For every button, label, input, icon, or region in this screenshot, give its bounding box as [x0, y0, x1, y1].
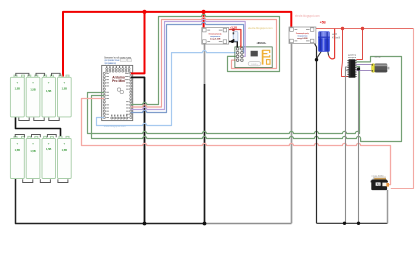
svg-text:мотор: мотор [375, 57, 382, 59]
svg-text:вход 6-23В: вход 6-23В [297, 38, 308, 40]
bottom header pins [111, 117, 128, 119]
svg-text:+: + [16, 142, 18, 146]
wire: lavender MOSI Arduino to nRF24 [134, 19, 246, 109]
svg-text:наб: наб [332, 34, 338, 36]
capacitor C1 (3.3V filter) [233, 32, 238, 42]
wire: black module1 OUT- to nRF24 GND [227, 42, 238, 49]
DC-DC module M1 (step-down converter) [202, 28, 229, 44]
junction dot C1 top [232, 28, 235, 31]
svg-text:1,5В: 1,5В [62, 149, 67, 152]
svg-text:nRF24L01+: nRF24L01+ [257, 42, 267, 45]
battery pack row 2 [10, 135, 71, 183]
left pin labels [106, 73, 109, 118]
right pin labels [125, 73, 129, 118]
svg-text:1,5В: 1,5В [30, 150, 35, 153]
svg-text:+: + [32, 142, 34, 146]
wire: green B Arduino A-pin to motor driver IN (big loop right) [92, 57, 402, 142]
wire: red +5V to motor driver Vcc pin [356, 29, 362, 60]
wire: motor driver GND left pins to bus [346, 67, 349, 223]
junction dot C1 bottom [231, 40, 234, 43]
svg-text:программатор: программатор [104, 63, 116, 65]
svg-text:1,5В: 1,5В [15, 88, 20, 91]
junction dot red rail 2 [202, 10, 206, 14]
svg-text:+: + [32, 80, 34, 84]
battery B3 [42, 75, 56, 117]
wire: red drop rail to module1 IN+ [203, 12, 205, 29]
wire: red drop rail to Arduino RAW pin [134, 12, 145, 74]
battery B6 [26, 136, 40, 178]
battery B1 [10, 75, 24, 117]
wire: series brackets row2 top [15, 135, 56, 138]
wire: +5V rail from module2 OUT+ to servo [315, 28, 413, 30]
wire: right ground bus [317, 222, 388, 224]
svg-text:1,5В: 1,5В [30, 89, 35, 92]
wire: series brackets row1 top [16, 73, 60, 76]
wire stubs over nRF24 board [235, 45, 245, 60]
wire: green SCK Arduino to nRF24 (loop around board) [134, 14, 280, 104]
wire: red capacitor plus to +5V rail [329, 29, 335, 59]
wire: motor driver GND right pin to bus [356, 69, 358, 223]
wire: purple motor leads [356, 65, 372, 71]
junction dot C2 minus [315, 58, 318, 61]
motor driver IC U3 (L293D) [347, 59, 356, 77]
svg-text:electe.blogspot.com: electe.blogspot.com [248, 26, 273, 30]
wire: light blue CE Arduino to nRF24 (under-board loop) [97, 51, 237, 126]
wire: servo ground gray [387, 190, 389, 223]
svg-text:вход 6-23В: вход 6-23В [210, 39, 221, 41]
capacitor C2 legs [317, 51, 329, 60]
wire: battery series link row1 to row2 [16, 115, 61, 140]
left header pins [103, 72, 105, 118]
svg-text:Понижающий преобр.: Понижающий преобр. [209, 32, 222, 35]
junction dot bus 2 [203, 222, 207, 226]
battery pack row 1 [10, 73, 71, 120]
svg-text:1,5В: 1,5В [46, 90, 51, 93]
svg-text:1,5В: 1,5В [46, 148, 51, 151]
nRF24 header pins overlay [236, 48, 243, 62]
wire: battery minus to ground bus [16, 178, 206, 224]
junction dot +5V rail 1 [341, 27, 344, 30]
junction dot IC right GND [357, 67, 360, 70]
svg-text:моторов: моторов [348, 57, 357, 59]
Arduino Pro Mini U1 [102, 65, 133, 120]
RF chip [251, 51, 258, 57]
top header pins [106, 68, 130, 72]
svg-text:+: + [48, 80, 50, 84]
note text above Arduino [104, 56, 131, 65]
svg-text:+: + [63, 142, 65, 146]
battery B8 [58, 136, 72, 178]
wire: module2 OUT- gray drop to bus [291, 43, 293, 223]
junction dot +5V rail 2 [361, 27, 364, 30]
capacitor C2 electrolytic blue [318, 31, 330, 52]
wire: red module1 OUT+ to nRF24 VCC [227, 30, 241, 49]
wire stubs over Arduino board edges [102, 73, 135, 117]
battery B2 [26, 75, 40, 117]
svg-text:+: + [48, 142, 50, 146]
svg-text:для прошивки только: для прошивки только [104, 60, 119, 62]
servo M4 [371, 175, 389, 190]
label above IC [348, 54, 357, 60]
junction dot right bus 1 [343, 222, 346, 225]
battery B4 [58, 75, 72, 117]
junction dot red rail 1 [142, 10, 146, 14]
battery B5 [10, 136, 24, 178]
wire: black Arduino GND down [134, 77, 145, 223]
wire: blue CSN Arduino to nRF24 [134, 22, 244, 112]
wire: red +5V to motor driver motor supply pin [342, 29, 349, 77]
svg-text:1,5В: 1,5В [15, 149, 20, 152]
header pins 2x4 [236, 48, 243, 62]
svg-text:+: + [63, 80, 65, 84]
svg-text:+: + [16, 80, 18, 84]
antenna trace [263, 50, 270, 65]
svg-text:16МГц: 16МГц [251, 64, 258, 66]
reset button [117, 88, 120, 91]
svg-text:Pro Mini: Pro Mini [112, 79, 125, 83]
wire: series brackets row1 bottom [19, 118, 59, 121]
junction dot right bus 2 [357, 222, 360, 225]
label capacitor value [332, 34, 340, 40]
svg-text:Понижающий преобр.: Понижающий преобр. [296, 32, 309, 35]
crystal [248, 62, 261, 66]
svg-text:драйвер: драйвер [348, 54, 357, 57]
bottom pin labels [111, 115, 127, 117]
DC motor M3 [372, 64, 390, 73]
right header pins [130, 72, 132, 118]
wire: module1 OUT- gray drop to bus [204, 44, 206, 85]
DC-DC module M2 (step-down converter) [289, 27, 316, 44]
nRF24L01 radio module U2 [235, 47, 272, 68]
wire: green A Arduino A-pin to motor driver IN [88, 67, 360, 134]
wire: salmon servo signal from Arduino [82, 99, 391, 185]
wire: black module2 OUT- / capacitor minus to right bus [315, 43, 317, 223]
svg-text:+5В: +5В [320, 21, 327, 25]
svg-text:470мкФ: 470мкФ [332, 36, 340, 39]
wire: main red battery+ rail to module2 IN+ [63, 12, 291, 77]
svg-text:www.blogspot.com: www.blogspot.com [104, 124, 126, 128]
top pin labels row [106, 66, 130, 67]
battery B7 [42, 136, 56, 178]
svg-text:electe.blogspot.com: electe.blogspot.com [295, 14, 320, 18]
junction dot bus 1 [143, 222, 147, 226]
wire: salmon MISO Arduino to nRF24 (loop around board) [134, 17, 277, 107]
wire: series brackets row2 bottom [23, 179, 68, 182]
svg-text:1,5В: 1,5В [62, 88, 67, 91]
